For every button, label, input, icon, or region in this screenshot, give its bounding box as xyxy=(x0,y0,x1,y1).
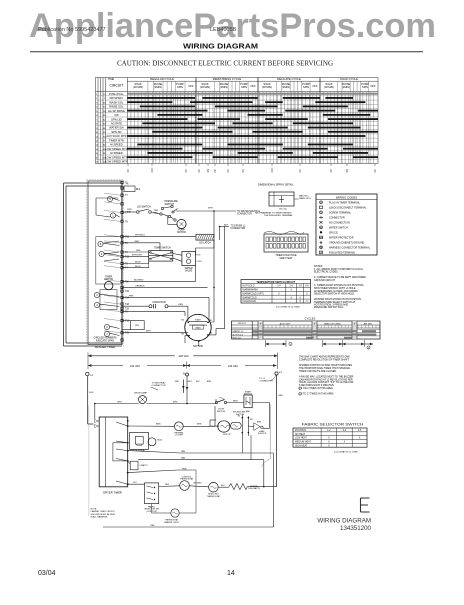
svg-text:PERM PRESS CYCLE: PERM PRESS CYCLE xyxy=(213,77,242,81)
wire lamp to door switch xyxy=(146,403,216,405)
svg-text:M4: M4 xyxy=(250,419,253,421)
svg-text:OFF: OFF xyxy=(370,84,376,88)
svg-text:REGULAR CYCLE: REGULAR CYCLE xyxy=(150,77,174,81)
svg-text:INSULATED TERMINAL: INSULATED TERMINAL xyxy=(329,252,356,255)
svg-text:WHT: WHT xyxy=(146,331,152,333)
VIO wire to fabric selector xyxy=(128,483,145,485)
svg-text:TEMP SWITCH: TEMP SWITCH xyxy=(154,247,171,250)
junction L1/lamp xyxy=(94,403,96,405)
washer timer sequence chart xyxy=(96,78,379,164)
120 VAC dimension lines xyxy=(88,365,123,367)
svg-text:MOTOR: MOTOR xyxy=(223,434,231,436)
svg-text:OFF: OFF xyxy=(250,84,256,88)
washer timer motor xyxy=(105,281,113,289)
svg-text:AUX SOAK MTR: AUX SOAK MTR xyxy=(106,134,126,138)
svg-text:WATER SW: WATER SW xyxy=(109,126,124,130)
svg-text:BLUE: BLUE xyxy=(135,266,141,268)
svg-text:MAIN: MAIN xyxy=(196,326,201,329)
svg-text:TAN: TAN xyxy=(181,450,186,453)
svg-text:SPIN: SPIN xyxy=(241,85,247,89)
dryer motor start winding xyxy=(231,422,242,429)
bar chart notes right column xyxy=(299,356,354,396)
svg-text:WATER: WATER xyxy=(185,267,193,270)
cycle signal xyxy=(130,433,149,450)
svg-text:ELECTRICAL CODES.: ELECTRICAL CODES. xyxy=(314,271,339,274)
arrow note circled numbers xyxy=(289,342,292,345)
svg-text:BRN: BRN xyxy=(257,422,262,424)
svg-text:WARM/COLD: WARM/COLD xyxy=(243,296,258,299)
svg-text:RINSE SOL: RINSE SOL xyxy=(109,105,124,109)
svg-text:THE INSULATED TERMINAL: THE INSULATED TERMINAL xyxy=(264,214,294,217)
6 watts lamp box xyxy=(130,461,138,470)
svg-text:THERMOSTAT: THERMOSTAT xyxy=(207,495,221,498)
svg-text:(18 MIN): (18 MIN) xyxy=(324,85,334,89)
svg-text:WASH SOL: WASH SOL xyxy=(109,100,124,104)
svg-text:BLK: BLK xyxy=(136,189,141,191)
washer timer (dashed enclosure) xyxy=(88,181,122,345)
svg-text:WASHER TIMER: WASHER TIMER xyxy=(95,345,116,349)
svg-text:NO CONNECTION: NO CONNECTION xyxy=(329,222,350,225)
TAN wires xyxy=(128,451,180,453)
svg-text:(2MIN): (2MIN) xyxy=(282,85,290,89)
svg-text:COLD/COLD: COLD/COLD xyxy=(243,301,257,303)
svg-text:(18 MIN): (18 MIN) xyxy=(262,85,272,89)
wire start circuit drop (dotted) xyxy=(269,405,271,459)
svg-text:CUTOFF: CUTOFF xyxy=(175,435,184,437)
svg-text:WHT: WHT xyxy=(135,241,141,243)
wire pressure switch to pump motor xyxy=(167,216,169,225)
svg-text:M6: M6 xyxy=(210,333,213,335)
svg-text:WHT/GRY: WHT/GRY xyxy=(132,255,143,257)
svg-text:AIR DRY: AIR DRY xyxy=(364,322,373,325)
svg-text:CYCLES: CYCLES xyxy=(305,316,316,320)
svg-text:OF: OF xyxy=(214,169,217,173)
wire BLK/RED xyxy=(122,281,195,283)
svg-text:120 VAC: 120 VAC xyxy=(130,364,140,368)
svg-text:WH: WH xyxy=(135,325,139,327)
svg-text:POSITION: POSITION xyxy=(295,430,306,432)
svg-text:BRN: BRN xyxy=(233,400,238,402)
svg-text:ORN/BLK: ORN/BLK xyxy=(135,285,145,287)
svg-text:RN: RN xyxy=(207,169,210,173)
svg-text:COMPLETE REVOLUTION OF TIME: COMPLETE REVOLUTION OF TIMER SHAFT. xyxy=(299,358,350,361)
PUR wire xyxy=(128,470,178,473)
svg-text:MOTOR: MOTOR xyxy=(193,344,203,348)
wiring codes legend xyxy=(316,194,377,255)
L1 feed wire right RED xyxy=(276,375,278,487)
svg-text:CAUTION: DISCONNECT ELECTRIC: CAUTION: DISCONNECT ELECTRIC CURRENT BEF… xyxy=(117,60,333,68)
svg-text:SWITCH: SWITCH xyxy=(244,394,253,396)
wire start switch to motor xyxy=(252,402,269,404)
svg-text:BAR: BAR xyxy=(154,211,159,214)
svg-text:THERMOSTAT: THERMOSTAT xyxy=(180,478,194,481)
console dashed boundary xyxy=(88,406,90,517)
svg-text:LOW SPEED MTR: LOW SPEED MTR xyxy=(105,155,128,159)
svg-text:GROUND (CABINET) GROUND: GROUND (CABINET) GROUND xyxy=(329,242,364,245)
svg-text:DIMENSIONAL SPRAY DETAIL: DIMENSIONAL SPRAY DETAIL xyxy=(258,184,294,187)
svg-text:HOT/COLD: HOT/COLD xyxy=(243,286,255,288)
svg-text:RED: RED xyxy=(278,395,283,397)
svg-text:HARNESS CONNECTOR TERMINAL: HARNESS CONNECTOR TERMINAL xyxy=(329,247,371,250)
svg-text:BLK/RED: BLK/RED xyxy=(134,280,144,282)
small aux box lower-left xyxy=(131,321,145,330)
svg-text:VALVE: VALVE xyxy=(185,270,193,273)
svg-text:NO HEAT: NO HEAT xyxy=(295,433,306,436)
240 VAC dimension line xyxy=(88,355,175,357)
drum lamp xyxy=(139,396,147,404)
motor hookup wires xyxy=(187,306,189,322)
svg-text:TIMER: TIMER xyxy=(105,276,112,278)
svg-text:DRUM LAMP: DRUM LAMP xyxy=(134,392,148,395)
neutral drop joins lamp wire xyxy=(186,376,188,404)
svg-text:(2MIN): (2MIN) xyxy=(342,85,350,89)
svg-text:NOTE:: NOTE: xyxy=(91,509,98,511)
svg-text:BUZZ 5-6: BUZZ 5-6 xyxy=(233,338,241,340)
svg-text:BLK: BLK xyxy=(90,392,95,394)
svg-text:CONNECTOR: CONNECTOR xyxy=(152,385,166,387)
high limit thermostat xyxy=(209,482,219,492)
title rule xyxy=(30,51,423,53)
svg-text:PNK: PNK xyxy=(136,250,141,252)
svg-text:OF: OF xyxy=(374,169,377,173)
svg-text:HIGH HEAT: HIGH HEAT xyxy=(295,444,308,447)
svg-text:WHT: WHT xyxy=(173,401,178,403)
dryer timer box xyxy=(99,417,128,487)
wire water valve common xyxy=(194,248,196,255)
water valve xyxy=(182,251,196,265)
svg-text:N: N xyxy=(183,373,185,376)
svg-text:BLUE: BLUE xyxy=(135,262,141,264)
svg-text:RED: RED xyxy=(151,525,156,527)
timer terminal pins xyxy=(121,181,130,341)
switch blades inside timer xyxy=(96,197,118,199)
svg-text:SP: SP xyxy=(299,169,302,173)
svg-text:DELICATE CYCLE: DELICATE CYCLE xyxy=(277,77,301,81)
fabric selector switch box xyxy=(145,483,159,504)
svg-text:SCREW TERMINAL: SCREW TERMINAL xyxy=(329,212,352,215)
svg-text:Publication No 5995423477: Publication No 5995423477 xyxy=(38,27,106,33)
revision letter E xyxy=(361,498,370,512)
door switch xyxy=(215,401,217,403)
svg-text:PNK: PNK xyxy=(129,295,134,297)
dryer timer harness arrows xyxy=(95,420,99,423)
svg-text:134351200: 134351200 xyxy=(340,525,372,532)
timer internal cam switches xyxy=(107,196,112,201)
svg-text:SWITCH: SWITCH xyxy=(217,411,226,413)
spray detail drawing xyxy=(269,192,294,206)
svg-text:AGITATE: AGITATE xyxy=(111,122,122,126)
dryer timer pins xyxy=(127,420,129,422)
svg-text:X=CONTACTS CLOSED: X=CONTACTS CLOSED xyxy=(334,450,359,453)
svg-text:WATER SWITCH: WATER SWITCH xyxy=(329,227,348,230)
svg-text:DR SPRAY: DR SPRAY xyxy=(110,96,124,100)
cycles chart arrows xyxy=(264,340,266,347)
thermostat heater xyxy=(171,509,179,517)
heater element xyxy=(229,484,248,490)
wire door to start switch xyxy=(227,402,244,404)
svg-text:PANEL MTG: PANEL MTG xyxy=(299,197,311,200)
chart contact-closure bars xyxy=(127,93,378,158)
svg-text:(18 MIN): (18 MIN) xyxy=(200,85,210,89)
svg-text:LOW HEAT: LOW HEAT xyxy=(295,437,307,440)
svg-text:WARM/COLD (OPT): WARM/COLD (OPT) xyxy=(243,292,264,295)
svg-text:WIRING CODES: WIRING CODES xyxy=(336,195,357,199)
svg-text:GROUND MUST BE KEPT: GROUND MUST BE KEPT xyxy=(91,514,117,516)
svg-text:SV: SV xyxy=(242,169,245,173)
wire PNK lower xyxy=(122,296,209,298)
svg-text:TIME: TIME xyxy=(108,77,114,81)
svg-text:SPLICE: SPLICE xyxy=(329,232,338,235)
svg-text:COLD: COLD xyxy=(196,261,202,263)
svg-text:ORN: ORN xyxy=(178,304,183,306)
centrifugal switch xyxy=(241,415,243,438)
svg-text:BRN: BRN xyxy=(156,424,161,426)
svg-text:(18 MIN): (18 MIN) xyxy=(133,85,143,89)
chart bottom tick labels xyxy=(127,164,377,173)
svg-text:INDICATE SPAN: INDICATE SPAN xyxy=(96,339,114,342)
svg-text:TAN: TAN xyxy=(181,456,186,459)
washer schematic left return wires xyxy=(63,183,65,346)
svg-text:RED: RED xyxy=(175,381,180,383)
svg-text:WIRING DIAGRAM: WIRING DIAGRAM xyxy=(317,518,371,525)
svg-text:1 1 OR 2 TIMES IN THIS AREA: 1 1 OR 2 TIMES IN THIS AREA xyxy=(299,387,333,390)
svg-text:CONNECTOR: CONNECTOR xyxy=(259,381,273,383)
svg-text:6 WATTS: 6 WATTS xyxy=(140,464,149,467)
motor winding drop wires xyxy=(241,438,243,454)
svg-text:2 5 TO 17 TIMES IN THIS AREA: 2 5 TO 17 TIMES IN THIS AREA xyxy=(299,393,334,396)
washer notes xyxy=(314,265,367,309)
svg-text:TEMPERATURE SWITCH CIRCUIT: TEMPERATURE SWITCH CIRCUIT xyxy=(256,281,295,284)
start switch xyxy=(244,395,252,408)
svg-text:START: START xyxy=(195,319,202,322)
svg-text:SELECTOR SWITCH AT HIGH HOLE.: SELECTOR SWITCH AT HIGH HOLE. xyxy=(314,293,355,296)
svg-text:SP: SP xyxy=(227,169,230,173)
svg-text:AppliancePartsPros.com: AppliancePartsPros.com xyxy=(29,7,436,45)
idler heat source xyxy=(254,423,260,431)
svg-text:AG SP DRIVE: AG SP DRIVE xyxy=(108,109,125,113)
svg-text:CIRCUIT: CIRCUIT xyxy=(238,323,247,325)
svg-text:(2MIN): (2MIN) xyxy=(220,85,228,89)
svg-text:SPIN: SPIN xyxy=(177,85,183,89)
svg-text:IN ALL HARNESS.: IN ALL HARNESS. xyxy=(91,516,109,519)
washer timer inner sub-box lower xyxy=(100,290,117,310)
svg-text:MEDIUM HEAT: MEDIUM HEAT xyxy=(295,441,312,444)
svg-text:BRN: BRN xyxy=(197,424,202,426)
svg-text:03/04: 03/04 xyxy=(38,570,56,577)
svg-text:BLF: BLF xyxy=(224,224,229,226)
aux box xyxy=(124,186,135,192)
lid latch (hatched) xyxy=(196,234,214,240)
wire T2 white xyxy=(122,242,160,244)
svg-text:HEATER, 186 Ω: HEATER, 186 Ω xyxy=(164,521,179,524)
washer drive motor xyxy=(185,314,211,340)
wire ORN/BLK xyxy=(122,286,208,288)
svg-text:ORG/BLK: ORG/BLK xyxy=(193,483,203,485)
svg-text:WARM/WARM: WARM/WARM xyxy=(243,289,258,292)
svg-text:BUZZ: BUZZ xyxy=(157,440,163,442)
svg-text:WIRING DIAGRAM: WIRING DIAGRAM xyxy=(183,44,258,51)
svg-text:CABINET USED CIRCUIT: CABINET USED CIRCUIT xyxy=(91,510,116,513)
svg-text:OF: OF xyxy=(198,169,201,173)
svg-text:LOW SPEED MTR: LOW SPEED MTR xyxy=(105,147,128,151)
motor circuit connections xyxy=(210,425,218,427)
svg-text:RN: RN xyxy=(346,169,349,173)
svg-text:LID LATCH: LID LATCH xyxy=(199,242,211,245)
svg-text:240 VAC: 240 VAC xyxy=(179,354,189,358)
bottom return wire xyxy=(103,526,274,528)
svg-text:CW: CW xyxy=(114,113,119,117)
svg-text:CAPACITOR: CAPACITOR xyxy=(152,301,166,304)
svg-text:DRYER TIMER: DRYER TIMER xyxy=(103,491,121,495)
wire BLU to motor xyxy=(122,311,185,313)
svg-text:CONNECTOR: CONNECTOR xyxy=(237,214,252,216)
svg-text:5300 WATTS: 5300 WATTS xyxy=(248,487,260,490)
svg-text:LID SWITCH: LID SWITCH xyxy=(137,205,151,208)
svg-text:SOAK CYCLE: SOAK CYCLE xyxy=(340,77,358,81)
wire to dryer L1 connector xyxy=(220,226,229,228)
svg-text:BLK: BLK xyxy=(221,485,225,487)
svg-text:OF: OF xyxy=(330,169,333,173)
pump motor xyxy=(177,219,186,228)
svg-text:HEATER 1-2: HEATER 1-2 xyxy=(233,330,244,333)
svg-text:WATER PROTECTOR: WATER PROTECTOR xyxy=(329,237,354,240)
svg-text:GROUND CIRCUIT: GROUND CIRCUIT xyxy=(314,279,336,282)
svg-text:BAR: BAR xyxy=(127,210,132,213)
timer internal feed lines xyxy=(104,193,120,333)
svg-text:QUICK DISCONNECT TERMINAL: QUICK DISCONNECT TERMINAL xyxy=(329,207,367,210)
dryer motor main winding xyxy=(218,421,230,432)
svg-text:OFF: OFF xyxy=(312,84,318,88)
thermal cutoff xyxy=(128,425,175,427)
svg-text:LEB4005B: LEB4005B xyxy=(210,27,237,33)
svg-text:MOTOR: MOTOR xyxy=(104,279,113,281)
wire motor common GRA/WHT xyxy=(122,332,188,334)
svg-text:CONNECTOR: CONNECTOR xyxy=(329,217,345,220)
svg-text:WHT: WHT xyxy=(117,401,122,403)
svg-text:120 VAC: 120 VAC xyxy=(228,364,238,368)
svg-text:OFF: OFF xyxy=(188,84,194,88)
svg-text:PUSH PULL: PUSH PULL xyxy=(109,92,124,96)
svg-text:GREY HEAT: GREY HEAT xyxy=(279,257,293,260)
L1 terminal right xyxy=(275,372,278,375)
L1 terminal left xyxy=(86,372,89,375)
wire pressure switch to dryer neutral xyxy=(176,210,214,212)
neutral feed wire xyxy=(182,380,184,393)
svg-text:CIRCUIT: CIRCUIT xyxy=(110,84,124,88)
svg-text:CONNECTOR: CONNECTOR xyxy=(231,228,246,230)
svg-text:HI SPEED: HI SPEED xyxy=(110,151,123,155)
svg-text:M4: M4 xyxy=(181,320,184,322)
svg-text:SOURCE: SOURCE xyxy=(258,433,267,435)
svg-text:SV: SV xyxy=(127,169,130,173)
svg-text:OFF: OFF xyxy=(151,167,154,172)
svg-text:(SC 50): (SC 50) xyxy=(279,208,287,210)
svg-text:FABRIC SELECTOR SWITCH: FABRIC SELECTOR SWITCH xyxy=(302,421,364,426)
svg-text:GREAT TO WIRES BEHIND: GREAT TO WIRES BEHIND xyxy=(264,212,292,215)
L1 feed wire left BLK xyxy=(87,376,89,424)
svg-text:PRESSURE SWITCH FULL.: PRESSURE SWITCH FULL. xyxy=(314,306,345,309)
washer timer contact bus xyxy=(121,181,123,345)
svg-text:WHT/BLU: WHT/BLU xyxy=(135,235,145,237)
svg-text:SWITCH: SWITCH xyxy=(236,414,244,416)
publication number line xyxy=(38,27,237,33)
svg-text:PLUG IN TIMER TERMINAL: PLUG IN TIMER TERMINAL xyxy=(329,202,361,205)
svg-text:HI SPEED: HI SPEED xyxy=(110,143,123,147)
svg-text:OFF: OFF xyxy=(271,167,274,172)
svg-text:M1: M1 xyxy=(210,320,213,322)
svg-text:TIMER MTR: TIMER MTR xyxy=(109,138,124,142)
svg-text:BRN: BRN xyxy=(207,381,212,383)
neutral terminal N xyxy=(186,373,189,376)
svg-text:TIMER CONTACTS ARE CLOSED.: TIMER CONTACTS ARE CLOSED. xyxy=(299,370,337,373)
svg-text:M5: M5 xyxy=(181,334,184,336)
svg-text:SP: SP xyxy=(185,169,188,173)
svg-text:RED: RED xyxy=(165,484,170,486)
svg-text:AUTO DRY: AUTO DRY xyxy=(280,322,291,325)
svg-text:SPIN: SPIN xyxy=(362,85,368,89)
washer timer inner sub-box upper xyxy=(96,237,122,284)
temp switch wires xyxy=(122,251,149,253)
svg-text:(2MIN): (2MIN) xyxy=(154,85,162,89)
washer timer connector detail xyxy=(264,232,304,235)
svg-text:SPIN: SPIN xyxy=(303,85,309,89)
svg-text:MOTOR 3-4: MOTOR 3-4 xyxy=(233,334,243,336)
svg-text:LOW SPEED MTR: LOW SPEED MTR xyxy=(105,160,128,164)
dryer timer switch blades xyxy=(116,422,128,426)
svg-text:SPN LID: SPN LID xyxy=(111,117,122,121)
svg-text:VIO: VIO xyxy=(133,482,137,484)
svg-text:MOTOR: MOTOR xyxy=(177,232,186,234)
fabric selector switch table xyxy=(293,428,367,447)
heater circuit wires xyxy=(159,485,180,488)
temperature switch circuit table xyxy=(241,280,311,304)
svg-text:14: 14 xyxy=(227,570,235,577)
svg-text:X=CONTACTS CLOSED: X=CONTACTS CLOSED xyxy=(276,305,301,308)
svg-text:WHT: WHT xyxy=(208,208,214,210)
svg-text:SPN SD: SPN SD xyxy=(111,130,121,134)
svg-text:TO NEUTRAL: TO NEUTRAL xyxy=(152,382,167,385)
